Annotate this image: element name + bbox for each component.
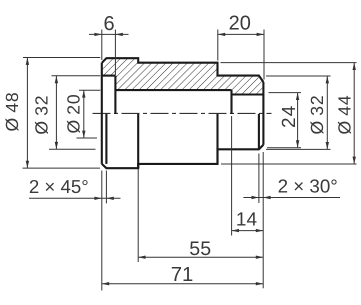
outline: left face: [101, 63, 103, 164]
svg-text:2 × 30°: 2 × 30°: [278, 175, 338, 196]
dimension Ø32 (right section OD): [266, 76, 331, 149]
svg-text:6: 6: [103, 13, 114, 35]
centerline (axis): [93, 112, 272, 114]
outline: bottom profile: [102, 145, 264, 168]
dimension 6 (counterbore depth): [89, 13, 129, 75]
step face line (bottom view): [216, 114, 218, 164]
svg-text:55: 55: [189, 238, 211, 260]
chamfer edge circle right (bottom view): [258, 114, 260, 149]
svg-text:24: 24: [279, 104, 300, 128]
flange face line (bottom view): [137, 114, 139, 168]
chamfer edge circle left (bottom view): [105, 114, 107, 164]
dimension Ø44 (body OD): [221, 63, 357, 164]
dimension 55: [138, 169, 263, 262]
bore edge right counterbore: [232, 93, 264, 95]
dimension 2×45° (left chamfer): [29, 171, 121, 291]
svg-text:Ø 32: Ø 32: [307, 95, 327, 135]
svg-text:Ø 44: Ø 44: [334, 95, 354, 135]
svg-text:Ø 32: Ø 32: [31, 95, 51, 135]
dimension 24 (right bore): [267, 93, 301, 148]
svg-text:Ø 48: Ø 48: [2, 92, 22, 132]
outline: top profile (chamfer, flange top, steps, right chamfer): [102, 58, 264, 82]
bore edge Ø32 counterbore: [102, 75, 116, 77]
dimension 2×30° (right chamfer): [243, 152, 340, 288]
dimension 71 (overall length): [102, 264, 263, 286]
svg-text:71: 71: [171, 264, 194, 286]
bore edge Ø20: [115, 89, 231, 91]
dimension Ø32 (left counterbore): [31, 76, 100, 150]
outline: right face: [262, 82, 264, 145]
dimension 14 (right bore depth): [232, 116, 264, 236]
dimension Ø48 (flange OD): [2, 58, 101, 169]
svg-text:Ø 20: Ø 20: [64, 94, 84, 134]
bore step Ø20/right bore: [230, 90, 232, 114]
svg-text:14: 14: [236, 210, 258, 231]
svg-text:2 × 45°: 2 × 45°: [29, 176, 89, 197]
bore step Ø32/Ø20: [114, 76, 116, 114]
section hatch (top half): [102, 58, 264, 94]
dimension Ø20 (through hole): [64, 90, 101, 138]
dimension 20 (right section length): [218, 13, 264, 80]
svg-text:20: 20: [229, 13, 251, 35]
